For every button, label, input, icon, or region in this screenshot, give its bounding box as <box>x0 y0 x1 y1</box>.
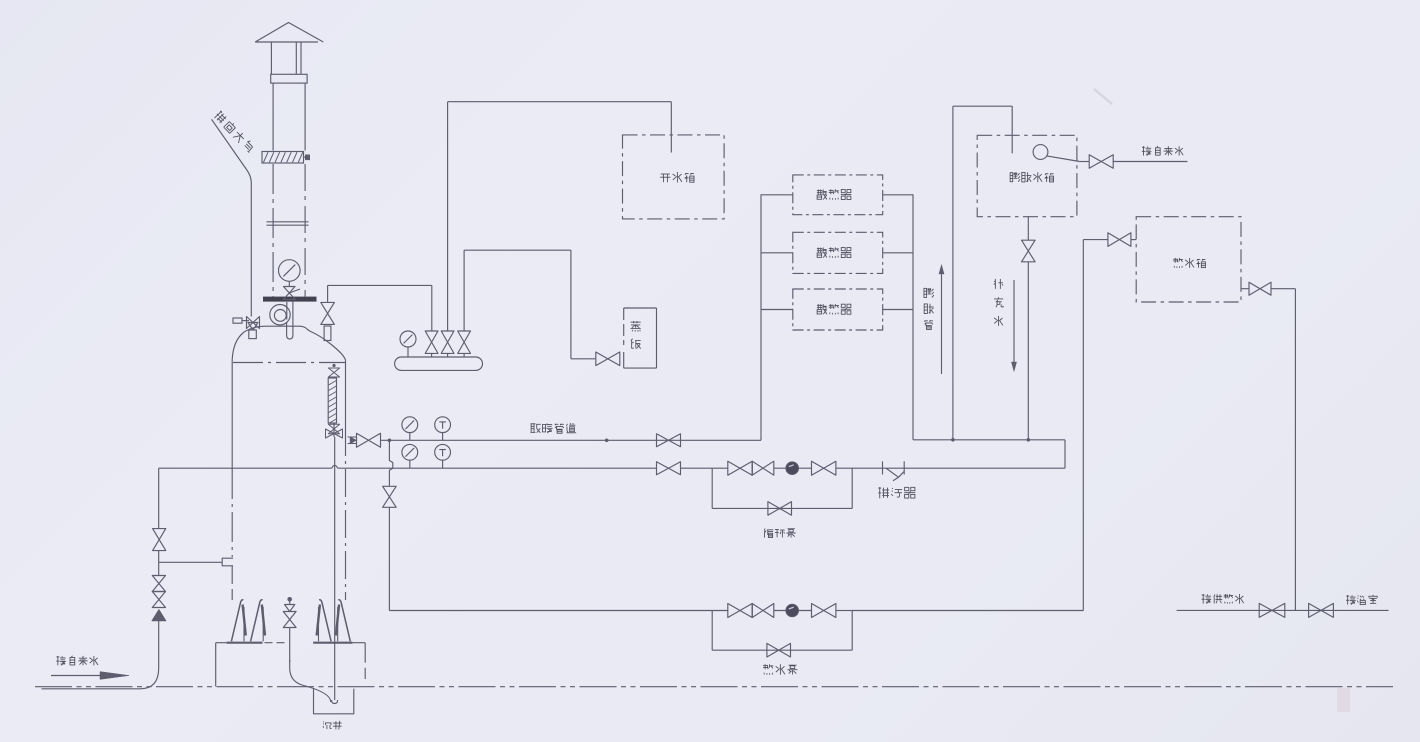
label zhengfan, vertical <box>631 321 641 323</box>
feed stop valve <box>153 529 166 551</box>
water gauge bottom cock cluster <box>328 424 339 434</box>
steam pipe to manifold <box>328 284 432 286</box>
return line to dirt separator <box>836 467 883 469</box>
chimney damper with hatching <box>262 152 304 164</box>
hot water bypass valve <box>767 643 791 657</box>
pipe to boiling water tank <box>448 101 672 103</box>
boiler pressure gauge <box>279 260 301 282</box>
tap water inlet label <box>57 656 59 665</box>
chimney right wall <box>304 83 306 150</box>
label kaishuixiang <box>661 173 670 175</box>
rice steamer box (zhengfan) <box>624 307 657 309</box>
lever safety valve body <box>247 317 260 329</box>
junction dot expansion <box>951 438 955 442</box>
steam manifold <box>395 357 483 370</box>
hot water tank (reshuixiang) <box>1136 217 1241 302</box>
label reshuixiang <box>1174 258 1176 263</box>
steam outlet valve on dome <box>321 302 335 324</box>
circulation pump bypass branch <box>711 468 713 508</box>
boiler leg 1 <box>231 600 243 642</box>
radiator 2 (sanreqi) <box>793 232 883 273</box>
label paiwuqi (dirt separator) <box>879 487 881 498</box>
thermometer row1 <box>435 417 451 433</box>
expansion pipe riser <box>952 106 954 440</box>
pipe to rice steamer <box>464 249 571 251</box>
return line to pump group <box>681 467 728 469</box>
label jieyushi (to bathroom) <box>1347 595 1349 605</box>
tap water inlet line (top right) <box>1080 161 1090 163</box>
boiler dome shell <box>232 326 345 364</box>
feed check valve (filled) <box>152 610 166 621</box>
circulation pump inlet valves <box>728 461 752 475</box>
make-up water pipe <box>1027 217 1029 240</box>
label reshuibeng (hot water pump) <box>764 664 766 669</box>
return line after separator <box>904 467 1065 469</box>
lever safety valve weight <box>233 318 242 323</box>
radiator 2 left stub <box>761 252 793 254</box>
water gauge drain pipe <box>334 437 336 700</box>
riser segment <box>158 551 160 576</box>
blow-down pipe to sump <box>290 660 331 702</box>
chimney rain cap <box>255 23 323 43</box>
float valve <box>1033 145 1048 160</box>
supply line valve 1 <box>1259 603 1285 617</box>
chimney cap supports <box>270 42 272 74</box>
radiator 1 (sanreqi) <box>793 175 883 215</box>
hot water tank inlet valve <box>1083 239 1108 241</box>
ground chain line <box>35 686 1393 688</box>
hot water tank outlet valve <box>1241 288 1249 290</box>
label chenjing (sump) <box>322 721 325 724</box>
boiler feed branch <box>159 561 223 563</box>
hot water tank inlet riser <box>1082 240 1084 611</box>
return line middle part <box>338 467 657 469</box>
junction dot A <box>388 439 392 443</box>
water gauge glass with hatching <box>328 378 336 423</box>
steam whistle dip tube <box>287 302 293 339</box>
rice steamer valve <box>596 352 620 366</box>
manifold gauge <box>400 331 416 347</box>
manifold valve 3 <box>458 331 471 353</box>
hot water pump inlet valves <box>728 604 752 618</box>
label paixiangdaqi (vent to atmosphere), rotated <box>213 110 255 153</box>
faint pink smudge bottom right <box>1337 688 1350 712</box>
radiator return riser <box>912 194 914 439</box>
return line hop over drain <box>332 465 338 468</box>
pressure gauge row2 <box>402 444 418 460</box>
boiling water tank (kaishuixiang) <box>623 135 725 219</box>
junction dot B <box>605 439 609 443</box>
radiator 1 left stub <box>761 194 793 196</box>
water gauge top cock <box>332 364 335 367</box>
faint scan mark top right <box>1094 89 1112 104</box>
junction dot make-up <box>1027 438 1031 442</box>
chimney left wall <box>272 83 274 150</box>
boiler top plate (thick bar) <box>263 297 317 302</box>
make-up annotation arrow <box>1013 280 1015 364</box>
flow arrow <box>51 675 102 677</box>
return line valve <box>657 462 681 475</box>
hot water pump outlet valve <box>812 604 836 618</box>
chimney top collar <box>271 74 307 83</box>
drop pipe valve <box>383 486 397 507</box>
boiler leg 4 <box>338 600 350 642</box>
expansion pipe annotation arrow <box>941 272 943 374</box>
thermometer row2 <box>435 444 451 460</box>
boiler right wall <box>345 364 347 428</box>
label qunuanguandao (heating pipeline) <box>530 423 532 432</box>
boiler outlet flange marks <box>348 436 357 438</box>
pressure gauge row1 <box>402 417 418 433</box>
foundation top plate <box>227 642 263 644</box>
sump pit (chenjing) <box>314 689 354 714</box>
lever safety valve lever <box>242 320 249 322</box>
blow-down valve <box>287 597 292 602</box>
boiler outlet valve <box>357 433 381 447</box>
radiator 1 right stub <box>883 194 913 196</box>
hot water supply line <box>1177 609 1389 611</box>
return header <box>913 439 1065 441</box>
manifold valve 2 <box>441 331 454 353</box>
gauge cock (three-way) <box>284 287 296 294</box>
supply line valve <box>657 434 681 447</box>
radiator 3 left stub <box>761 309 793 311</box>
expansion tank (pengzhangshuixiang) <box>977 135 1077 216</box>
manifold valve 1 <box>425 331 438 353</box>
supply line valve 2 <box>1309 603 1334 617</box>
foundation block <box>215 643 217 687</box>
label pengzhangshuixiang <box>1010 173 1013 182</box>
boiler leg 3 <box>319 600 331 642</box>
boiler water level chain line <box>233 362 345 364</box>
label jiezilaishui (tap water) <box>1142 146 1144 155</box>
bypass valve <box>768 502 792 516</box>
drain pipe outlet hook <box>332 700 338 704</box>
radiator 2 right stub <box>883 252 913 254</box>
boiler leg 2 <box>251 600 263 642</box>
radiator 3 right stub <box>883 309 913 311</box>
hot water pump <box>774 610 812 612</box>
steam whistle spiral <box>270 305 290 325</box>
radiator 1 label <box>817 189 819 195</box>
radiator supply riser <box>760 194 762 440</box>
feed double valve <box>152 576 165 592</box>
riser to return line <box>158 468 160 528</box>
return line left part <box>159 467 332 469</box>
radiator 3 (sanreqi) <box>793 289 883 330</box>
feed water pipe from mains <box>42 621 159 689</box>
drop pipe to hot water line <box>388 507 390 610</box>
label jiegongreshui (to hot water supply) <box>1202 594 1204 604</box>
hot water tank outlet riser <box>1294 289 1296 611</box>
drop pipe from supply junction <box>389 440 392 486</box>
boiler left wall <box>231 364 233 469</box>
label xunhuanbeng (circulation pump) <box>764 529 765 531</box>
boiler feed connection square <box>222 558 233 566</box>
radiator 3 label <box>817 304 819 310</box>
dirt separator symbol <box>882 461 884 474</box>
label pengzhangguan (expansion pipe), vertical <box>924 288 927 297</box>
chimney joint lines <box>267 221 309 223</box>
heating supply line <box>381 439 761 441</box>
circulation pump <box>774 467 812 469</box>
hot water pump bypass branch <box>711 611 713 651</box>
vent pipe to atmosphere <box>212 119 252 316</box>
circulation pump outlet valve <box>812 461 836 475</box>
radiator 2 label <box>817 248 819 254</box>
label buchongshui (make-up water), vertical <box>994 279 996 289</box>
